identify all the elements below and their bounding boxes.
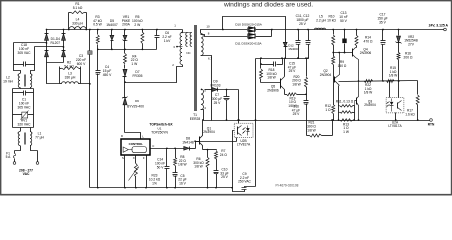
caption text (cut off) <box>223 2 313 9</box>
svg-text:C: C <box>152 144 154 148</box>
label C10 <box>220 168 228 180</box>
secondary return rail <box>204 120 430 122</box>
svg-text:10 kΩ: 10 kΩ <box>327 18 336 22</box>
wire L1 top legs <box>21 128 31 147</box>
svg-text:1%: 1% <box>152 181 157 185</box>
svg-text:35 V: 35 V <box>379 20 387 24</box>
inductor L4 <box>68 27 87 31</box>
optocoupler U2B <box>234 123 253 137</box>
U1 CONTROL text <box>129 142 144 146</box>
svg-text:1 W: 1 W <box>131 62 138 66</box>
svg-text:1/8 W: 1/8 W <box>364 91 373 95</box>
resistor R19 <box>285 93 307 96</box>
label C14 <box>155 158 165 170</box>
label D6 BYV29-400 <box>127 99 144 108</box>
label Q1 2N3904 <box>203 126 215 134</box>
label R19 <box>288 96 297 108</box>
svg-text:10: 10 <box>206 25 210 29</box>
wire U2A bottom <box>395 113 397 121</box>
capacitor C7 <box>224 89 230 121</box>
label pin S <box>122 156 124 160</box>
label C13 <box>339 11 347 23</box>
wire D12 bypass loop <box>222 17 285 43</box>
label C15 <box>288 62 296 74</box>
label L2 19 mH <box>3 76 13 84</box>
label Q3 2N3904 <box>364 99 376 107</box>
label Q5 2N3906 <box>267 85 279 93</box>
svg-text:LTV817A: LTV817A <box>388 124 402 128</box>
wire pin 3 tap <box>176 46 182 48</box>
wire fuse jog <box>15 147 21 151</box>
wire X pin <box>135 155 137 164</box>
svg-text:D6: D6 <box>135 99 139 103</box>
wire F pin <box>145 155 147 189</box>
transistor Q4 2N3906 <box>353 48 360 82</box>
resistor R2 <box>60 67 81 70</box>
capacitor C16 <box>304 95 309 136</box>
capacitor C3 <box>88 29 92 85</box>
label pin 4 <box>204 106 206 110</box>
diode D8 <box>184 147 196 151</box>
svg-text:150 Ω: 150 Ω <box>338 64 347 68</box>
diode D7 <box>123 69 128 82</box>
label TOPSwitch-GX <box>149 123 173 127</box>
svg-text:1/8 W: 1/8 W <box>178 163 187 167</box>
svg-text:16 V: 16 V <box>179 182 187 186</box>
svg-text:200A: 200A <box>122 23 131 27</box>
label pin 5 <box>204 89 206 93</box>
resistor R1 <box>69 11 87 30</box>
wire C pin <box>151 148 184 150</box>
resistor R4 <box>124 50 127 69</box>
wire bridge bottom <box>47 62 64 64</box>
label NC <box>186 51 190 55</box>
resistor R16 <box>397 52 400 81</box>
wire R21 row <box>307 119 333 135</box>
capacitor C18 <box>14 62 35 67</box>
svg-text:FR305: FR305 <box>133 74 143 78</box>
svg-text:1/8 W: 1/8 W <box>194 165 203 169</box>
label VR2 <box>404 35 418 47</box>
wire pin 8 <box>201 35 248 37</box>
label RV1 320 VAC <box>18 119 32 127</box>
wire U2B emitter to gnd <box>233 131 235 188</box>
label R17 <box>405 109 415 117</box>
svg-text:BYV29-400: BYV29-400 <box>127 105 144 109</box>
wire Q1 emitter row <box>203 149 217 151</box>
label C7 <box>212 93 222 105</box>
resistor R13 <box>340 119 353 121</box>
svg-text:1/8 W: 1/8 W <box>307 128 316 132</box>
resistor R6 <box>206 149 209 189</box>
label C5 <box>178 174 186 186</box>
svg-text:25 V: 25 V <box>299 22 307 26</box>
label D7 FR305 <box>133 70 143 78</box>
wire U2B bottom <box>196 138 237 142</box>
svg-text:windings and diodes are used.: windings and diodes are used. <box>223 2 313 9</box>
label 24V <box>429 24 449 28</box>
label pin 8 <box>208 32 210 36</box>
svg-text:1/8 W: 1/8 W <box>389 74 398 78</box>
label R11 <box>336 99 354 103</box>
resistor R5 <box>141 29 144 51</box>
label R6 <box>193 157 204 169</box>
label L5 <box>316 15 326 23</box>
inductor L1 <box>18 132 33 146</box>
secondary winding <box>201 33 204 55</box>
output rail <box>272 29 444 31</box>
wire U2B top <box>238 119 240 123</box>
wire S pin <box>124 155 126 189</box>
resistor R18 <box>260 59 263 83</box>
svg-text:S: S <box>122 156 124 160</box>
primary ground rail <box>90 187 233 189</box>
input terminal left <box>13 159 16 165</box>
capacitor C9 <box>231 187 255 192</box>
op-amp U1 TOPSwitch box <box>121 139 150 155</box>
wire L2 to box <box>21 88 31 89</box>
label D8 1N4148 <box>182 137 194 145</box>
resistor R8 and capacitor C5 <box>173 147 178 188</box>
label R10 <box>327 15 336 23</box>
svg-text:330 µH: 330 µH <box>65 75 76 79</box>
svg-text:1.6 kΩ: 1.6 kΩ <box>405 113 415 117</box>
wire B- down <box>47 63 60 84</box>
primary winding B <box>183 33 192 47</box>
svg-text:1N4003: 1N4003 <box>288 47 299 51</box>
svg-text:RL207: RL207 <box>51 41 61 45</box>
inductor L2 <box>18 74 33 88</box>
diode D6 <box>123 83 128 133</box>
label D1-D4 RL207 <box>51 37 61 45</box>
sense bus <box>339 81 418 82</box>
output terminal <box>444 28 447 31</box>
wire pin4 down <box>201 110 204 121</box>
svg-text:305 VAC: 305 VAC <box>18 105 32 109</box>
svg-text:25 V: 25 V <box>221 175 229 179</box>
label R12 <box>325 104 331 112</box>
transistor Q2 2N3904 <box>335 52 341 86</box>
svg-text:1/8 W: 1/8 W <box>267 76 276 80</box>
svg-text:27V: 27V <box>408 43 415 47</box>
wire pin 2 <box>125 65 183 83</box>
svg-text:5.1 kΩ: 5.1 kΩ <box>73 6 83 10</box>
svg-text:0.5 W: 0.5 W <box>93 23 102 27</box>
resistor R20 <box>305 57 308 94</box>
node drain clamp <box>124 81 126 83</box>
label L3 330 uH <box>65 72 76 80</box>
label C18 <box>18 43 32 55</box>
svg-text:1N4007: 1N4007 <box>106 23 118 27</box>
capacitor C17 <box>381 29 386 82</box>
label R2 5.1 k <box>64 61 74 69</box>
wire drain to U1 <box>125 133 141 139</box>
svg-text:VAC: VAC <box>23 172 30 176</box>
label 208-277 VAC <box>19 168 33 176</box>
label D11 <box>235 41 262 45</box>
figure number PI-4679-020108 <box>276 183 299 187</box>
capacitor C12 <box>306 29 311 59</box>
label R20 <box>292 75 302 87</box>
svg-text:330 µH: 330 µH <box>72 21 83 25</box>
label R18 <box>266 68 277 80</box>
svg-text:25 V: 25 V <box>289 69 297 73</box>
varistor RV1 <box>13 111 34 120</box>
svg-text:24 Ω: 24 Ω <box>220 153 228 157</box>
label R14 <box>364 36 373 44</box>
svg-text:50 V: 50 V <box>340 19 348 23</box>
svg-text:2 W: 2 W <box>134 23 141 27</box>
label Q4 2N3906 <box>360 47 372 55</box>
label C3 <box>76 54 86 66</box>
label R23 <box>149 174 161 186</box>
label C9 <box>238 172 251 184</box>
label T1 EER28 <box>190 113 201 121</box>
label R21 <box>307 121 317 133</box>
inductor L5 <box>315 28 326 29</box>
svg-text:450 V: 450 V <box>103 73 112 77</box>
label R1 5.1 k <box>73 2 83 10</box>
svg-text:2N3906: 2N3906 <box>360 51 372 55</box>
label R5 100k 2W <box>132 15 143 27</box>
label pin D <box>121 134 123 138</box>
label R22 <box>364 83 373 95</box>
label C4 <box>103 65 112 77</box>
label R16 <box>404 52 413 60</box>
label D5 1N4007 <box>106 19 118 27</box>
capacitor C1 <box>13 91 34 96</box>
svg-text:470 Ω: 470 Ω <box>364 39 373 43</box>
label C17 <box>377 13 387 25</box>
label L1 77 uH <box>35 132 44 140</box>
zener VR2 <box>396 29 402 53</box>
svg-text:PI-4679-020108: PI-4679-020108 <box>276 183 299 187</box>
transistor Q5 2N3906 <box>281 59 285 95</box>
svg-text:1N4148: 1N4148 <box>182 141 194 145</box>
wire bias node down <box>237 90 239 121</box>
svg-text:5 A: 5 A <box>6 155 12 159</box>
bias output winding <box>201 89 204 110</box>
svg-text:200 Ω: 200 Ω <box>404 56 413 60</box>
transistor Q1 <box>194 119 203 149</box>
diode D5 <box>110 29 114 51</box>
label pin X <box>133 156 135 160</box>
label D9 FR103 <box>211 80 221 88</box>
svg-text:24V, 3.125 A: 24V, 3.125 A <box>429 24 449 28</box>
label RTN <box>428 123 435 127</box>
label R7 24 <box>220 149 228 157</box>
label U2B LTV817A <box>237 139 251 147</box>
label R15 <box>389 66 398 78</box>
resistor R3 <box>96 29 99 51</box>
wire pin5 bias <box>205 89 213 91</box>
optocoupler U2A <box>386 98 404 113</box>
zener VR1 <box>123 29 128 51</box>
inductor L3 <box>62 82 79 84</box>
svg-text:5.1 kΩ: 5.1 kΩ <box>64 65 74 69</box>
svg-text:6,7: 6,7 <box>208 56 212 60</box>
primary winding A <box>180 30 183 65</box>
label L4 330 uH <box>72 18 83 26</box>
label VR1 P6KE 200A <box>122 15 131 27</box>
svg-text:1 Ω: 1 Ω <box>325 108 331 112</box>
svg-text:50 V: 50 V <box>157 165 165 169</box>
wire pins 6 7 <box>201 56 212 121</box>
current sense R11 pair <box>338 86 355 121</box>
label pin 10 <box>206 25 210 29</box>
bridge D1-D4 left column <box>45 29 49 63</box>
wire C1 RV1 frame <box>13 89 34 128</box>
wire B- to rail <box>81 84 90 188</box>
svg-text:2N3906: 2N3906 <box>267 89 279 93</box>
capacitor C11 <box>296 29 301 59</box>
label R4 22 1W <box>131 54 139 66</box>
wire gnd drop <box>255 59 257 187</box>
label D10 <box>235 23 263 27</box>
capacitor C6 <box>155 29 160 50</box>
wire U2A led riser <box>389 80 391 97</box>
label C1 <box>18 98 32 110</box>
svg-text:1 W: 1 W <box>343 130 350 134</box>
resistor R17 <box>416 81 419 121</box>
label pin L <box>142 134 144 138</box>
diode D9 <box>212 88 239 92</box>
svg-text:19 mH: 19 mH <box>3 80 13 84</box>
svg-text:1 kV: 1 kV <box>164 39 171 43</box>
svg-text:250 VAC: 250 VAC <box>238 180 251 184</box>
diode D10 pair <box>248 27 272 33</box>
wire pin 10 <box>201 30 248 34</box>
capacitor C14 <box>165 147 170 188</box>
svg-text:2N3904: 2N3904 <box>320 73 332 77</box>
label pin 3 <box>173 45 175 49</box>
wire cap return <box>256 57 309 59</box>
diode D11 pair <box>248 33 272 39</box>
svg-text:1/8 W: 1/8 W <box>292 83 301 87</box>
wire AC to bridge lower <box>35 46 64 48</box>
wire AC to bridge upper <box>14 42 47 44</box>
U1 inner block <box>123 147 146 153</box>
resistor R23 trim <box>129 164 139 189</box>
svg-text:2N3904: 2N3904 <box>364 103 376 107</box>
label C6 <box>162 31 171 43</box>
label R13 <box>343 122 350 134</box>
resistor R22 <box>364 80 373 83</box>
svg-text:R11, 0.13 Ω: R11, 0.13 Ω <box>336 99 354 103</box>
label U2A LTV817A <box>388 120 402 128</box>
capacitor C10 <box>214 171 219 189</box>
resistor R15 <box>387 80 395 83</box>
label pin 6 7 <box>208 56 212 60</box>
label pin 1 <box>174 24 176 28</box>
label D12 1N4003 <box>288 44 299 51</box>
svg-text:320 VAC: 320 VAC <box>18 123 32 127</box>
transistor Q3 2N3904 <box>355 82 360 121</box>
clamp bus wire <box>98 49 157 51</box>
svg-text:CONTROL: CONTROL <box>129 142 144 146</box>
label pin 2 <box>172 63 174 67</box>
capacitor C13 <box>342 29 346 54</box>
svg-text:2N3904: 2N3904 <box>203 130 215 134</box>
svg-text:25 V: 25 V <box>214 101 222 105</box>
svg-text:F: F <box>143 156 145 160</box>
svg-text:EER28: EER28 <box>190 117 201 121</box>
resistor R9 <box>332 53 335 80</box>
wire right leg jog <box>31 147 38 151</box>
label F1 5 A <box>6 151 12 159</box>
svg-text:RTN: RTN <box>428 123 435 127</box>
svg-text:NC: NC <box>186 51 190 55</box>
wire Q5 base <box>261 82 281 84</box>
svg-text:D10 DSSK20-015A: D10 DSSK20-015A <box>235 23 263 27</box>
resistor R14 <box>355 29 358 48</box>
label R8 <box>178 155 187 167</box>
resistor R10 <box>332 29 335 54</box>
wire R10 R9 node <box>334 52 353 54</box>
svg-text:TOP250YN: TOP250YN <box>151 130 168 134</box>
svg-text:2.2 µH: 2.2 µH <box>316 18 326 22</box>
svg-text:FR103: FR103 <box>211 84 221 88</box>
label R3 <box>93 15 103 27</box>
B+ rail <box>47 29 183 31</box>
wire AC legs <box>14 43 35 74</box>
diode D12 <box>283 42 287 58</box>
svg-text:D: D <box>121 134 123 138</box>
wire R2L3 sides <box>60 67 81 84</box>
label C11 C12 <box>296 14 310 26</box>
svg-text:305 VAC: 305 VAC <box>18 51 32 55</box>
label pin F <box>143 156 145 160</box>
resistor R7 <box>215 150 218 171</box>
svg-text:D11 DSSK20-015A: D11 DSSK20-015A <box>235 41 262 45</box>
svg-text:25 V: 25 V <box>293 112 301 116</box>
bridge D1-D4 right column <box>62 29 66 63</box>
svg-text:77 µH: 77 µH <box>35 136 44 140</box>
transformer core <box>194 25 197 111</box>
RTN terminal <box>430 119 433 122</box>
wire D11 riser <box>271 29 273 37</box>
label Q2 2N3904 <box>320 69 332 77</box>
capacitor C15 <box>260 57 283 66</box>
label R9 <box>338 60 347 68</box>
input terminal right <box>36 151 39 165</box>
svg-text:X: X <box>133 156 135 160</box>
fuse F1 <box>13 151 15 159</box>
label C16 <box>292 105 300 117</box>
svg-text:600 V: 600 V <box>77 62 86 66</box>
capacitor C4 <box>96 50 101 189</box>
svg-text:LTV817A: LTV817A <box>237 143 251 147</box>
wire U2A right riser <box>398 80 400 97</box>
label pin C <box>152 144 154 148</box>
resistor R12 and return drop <box>332 80 335 121</box>
label U1 TOP250YN <box>151 127 168 135</box>
resistor R21 <box>310 134 322 137</box>
